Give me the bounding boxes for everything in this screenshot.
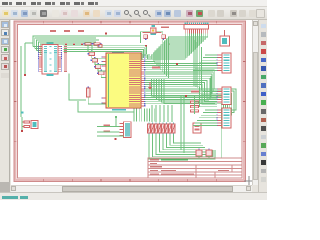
- cursor crosshair: [244, 176, 254, 186]
- net label flag left: [98, 45, 102, 48]
- wire bus U2 to bottom resistor pack: [134, 109, 155, 122]
- wire feeds J2: [193, 55, 217, 71]
- crystal Y1: [150, 25, 156, 35]
- value label 12MHz: [161, 26, 169, 28]
- wire verticals mid lower: [181, 96, 184, 153]
- wire corner group below fan: [152, 79, 216, 104]
- wire feeds J4: [193, 110, 217, 126]
- wire feeds J3: [195, 89, 217, 102]
- power port VCC arrow: [148, 82, 152, 90]
- wire bus verticals mid: [194, 40, 202, 90]
- reset circuit box U5: [31, 121, 38, 129]
- MCU U2 yellow block: [101, 51, 145, 111]
- horizontal scrollbar: [11, 185, 252, 192]
- wire reset net: [21, 112, 24, 132]
- net label VCC2: [191, 91, 199, 93]
- wire loop bundle above U1: [33, 36, 141, 55]
- capacitor C1: [22, 126, 30, 128]
- net label MOSI: [103, 124, 110, 126]
- capacitor bank C5-C7: [191, 96, 199, 114]
- junction dots on bus: [65, 33, 187, 97]
- wire U2 bottom loop left: [78, 101, 134, 112]
- capacitor C4: [162, 35, 166, 40]
- wire crystal green loop: [141, 32, 170, 45]
- sheet border frame: [14, 21, 246, 182]
- left panel bottom block: [0, 182, 10, 192]
- junction crystal: [168, 44, 170, 46]
- wire staircase into U2 left: [69, 56, 106, 100]
- wire bus U2 right pin rows upper: [145, 55, 218, 99]
- wire staircase from RP1 down right: [149, 135, 215, 160]
- part U7 small box: [193, 123, 201, 133]
- net label VCC1: [152, 67, 160, 69]
- capacitor C2 vertical: [87, 86, 107, 104]
- wire group U1 right to U2 top area: [64, 45, 147, 60]
- transistor Q2: [206, 148, 212, 158]
- status bar: [0, 192, 267, 200]
- wire J5 feeds: [97, 116, 124, 140]
- main toolbar: [0, 7, 267, 20]
- canvas: [11, 20, 252, 185]
- wire U1 left column down: [21, 43, 34, 117]
- resistor R2: [83, 43, 92, 45]
- connector J5 ISP header: [120, 122, 132, 138]
- transistor Q1: [196, 148, 202, 158]
- resistor pack RP1 diagonal: [148, 122, 176, 134]
- menu bar: [0, 0, 267, 7]
- net labels on loop lines: [50, 30, 84, 32]
- connector J1 header: [184, 23, 209, 34]
- title block: [148, 158, 242, 178]
- wire crystal red bus: [143, 31, 162, 33]
- part U6 small top right: [220, 30, 230, 46]
- resistor R1: [22, 121, 30, 123]
- right tool panel: [258, 20, 267, 200]
- wire bus fan J1 verticals and corners: [148, 34, 208, 79]
- connector J3: [216, 87, 231, 105]
- wire stubs loops to U1 left pins: [33, 47, 42, 55]
- wire bus U2 right pins middle group: [145, 80, 217, 106]
- IC U1 dual-column DIP: [38, 42, 67, 75]
- connector J2: [216, 53, 231, 73]
- capacitor C3: [144, 35, 148, 40]
- left tool panel: [0, 20, 10, 192]
- wire feeds RP1 tops: [152, 105, 172, 122]
- wire bus U2 right pins lower group: [145, 89, 236, 158]
- connector J4: [216, 108, 231, 128]
- diode ladder D1-D4: [87, 45, 104, 75]
- resistor R3: [92, 43, 101, 45]
- net label MISO: [103, 130, 110, 132]
- vertical scrollbar: [252, 20, 258, 185]
